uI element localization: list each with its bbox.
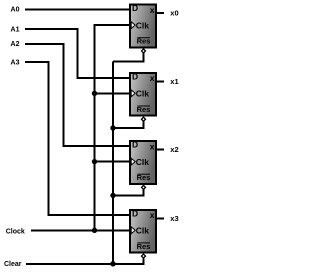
svg-text:x: x [150, 210, 155, 220]
svg-text:x: x [150, 73, 155, 83]
svg-text:Clk: Clk [136, 157, 150, 167]
svg-text:Clk: Clk [136, 20, 150, 30]
svg-text:Res: Res [137, 173, 151, 182]
svg-text:D: D [132, 72, 138, 82]
svg-text:x1: x1 [170, 77, 178, 86]
svg-text:x: x [150, 141, 155, 151]
svg-text:x: x [150, 5, 155, 15]
svg-text:Clock: Clock [6, 229, 25, 236]
svg-text:A1: A1 [11, 26, 20, 33]
svg-text:A3: A3 [11, 59, 20, 66]
svg-text:Res: Res [137, 242, 151, 251]
svg-text:Clk: Clk [136, 89, 150, 99]
svg-text:Res: Res [137, 105, 151, 114]
svg-text:D: D [132, 208, 138, 218]
svg-text:Res: Res [137, 37, 151, 46]
svg-text:D: D [132, 3, 138, 13]
svg-text:Clear: Clear [4, 261, 22, 268]
svg-text:A2: A2 [11, 41, 20, 48]
svg-text:A0: A0 [11, 7, 20, 14]
svg-text:Clk: Clk [136, 226, 150, 236]
svg-text:x2: x2 [170, 145, 178, 154]
svg-text:x3: x3 [170, 214, 178, 223]
svg-text:x0: x0 [170, 9, 178, 18]
svg-text:D: D [132, 140, 138, 150]
